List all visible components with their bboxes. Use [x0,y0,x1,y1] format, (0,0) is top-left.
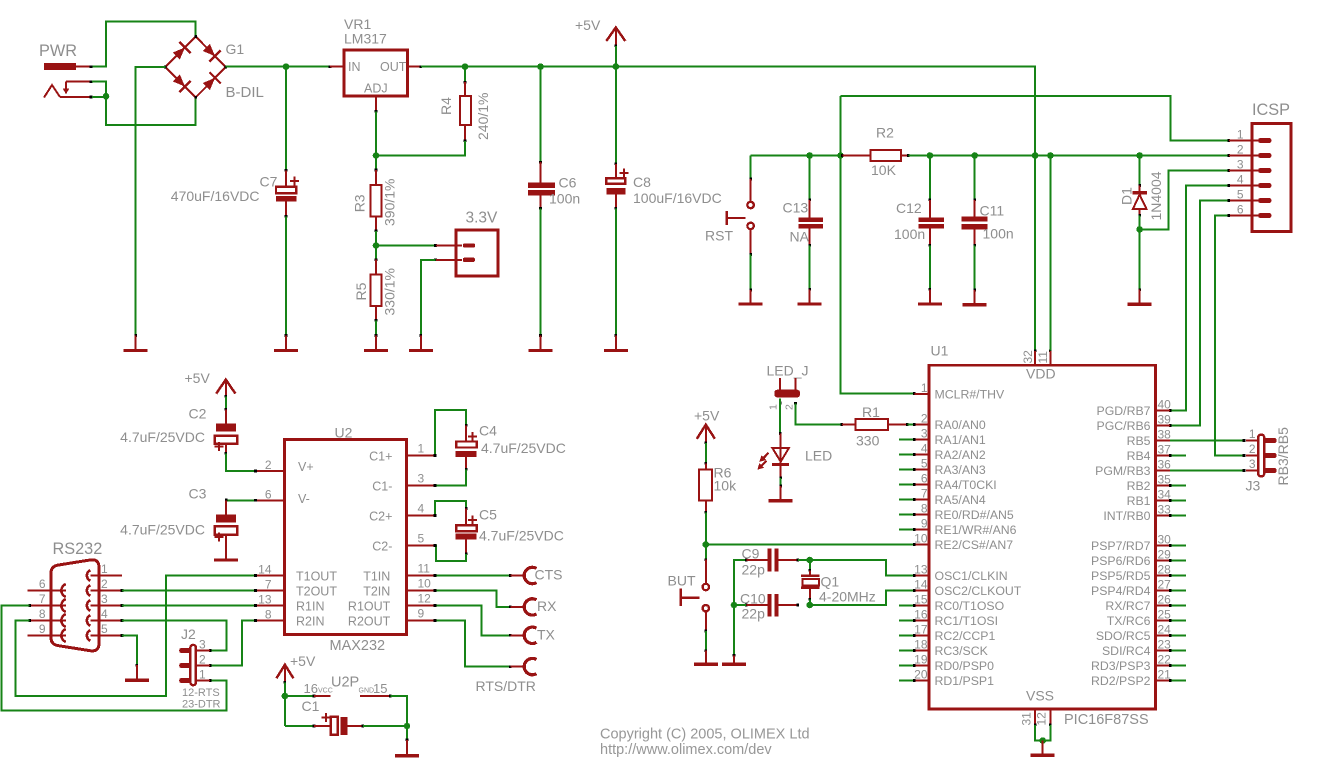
svg-text:R2OUT: R2OUT [348,615,391,629]
wire Q1 bottom to OSC2 node [809,599,811,605]
ground for LED [769,485,793,501]
supply symbol +5V top [575,17,625,47]
svg-text:TX: TX [537,627,556,643]
svg-text:C2: C2 [189,406,207,422]
svg-text:3: 3 [1249,457,1256,471]
svg-text:V+: V+ [298,460,314,474]
wire C2 to U2 pin2 V+ [226,454,256,472]
svg-text:R2: R2 [876,125,894,141]
svg-text:39: 39 [1158,413,1172,427]
wire C11 branch [974,156,976,200]
svg-text:2: 2 [101,577,108,591]
svg-text:C5: C5 [479,507,497,523]
capacitor C2 4.7uF/25VDC [120,406,237,455]
svg-text:3: 3 [921,427,928,441]
junction VDD pin11 tap [1047,152,1054,159]
svg-text:12-RTS: 12-RTS [182,687,220,699]
wire stub pins right side unconnected stubs [1170,455,1186,457]
resistor R4 240/1% [438,81,491,142]
svg-text:2: 2 [921,412,928,426]
svg-text:GND: GND [359,688,375,695]
svg-text:MCLR#/THV: MCLR#/THV [935,388,1005,402]
svg-text:R5: R5 [353,282,369,300]
svg-text:T2IN: T2IN [363,585,390,599]
svg-text:1: 1 [1237,128,1244,142]
svg-text:C3: C3 [189,486,207,502]
svg-text:12: 12 [418,592,432,606]
wire U2 pin4 C2+ to C5 [435,501,466,516]
svg-text:PGM/RB3: PGM/RB3 [1095,464,1151,478]
signal arc CTS [511,567,563,584]
svg-text:4: 4 [418,502,425,516]
wire C5 to U2 pin5 C2- [435,546,466,561]
signal arc TX [511,627,556,644]
svg-text:RB1: RB1 [1127,494,1151,508]
wire RST to ground [750,255,752,290]
ground for 3.3V pin2 [409,334,433,350]
wire C10 left to gnd rail [734,604,746,606]
svg-text:100n: 100n [894,226,925,242]
svg-text:VDD: VDD [1026,366,1056,382]
wire C12 to ground [929,245,931,289]
svg-text:1: 1 [1249,427,1256,441]
svg-text:5: 5 [418,532,425,546]
diode D1 1N4004 [1119,171,1165,220]
svg-text:2: 2 [265,458,272,472]
svg-text:3: 3 [418,472,425,486]
junction C10/Q1/OSC2 [807,602,814,609]
svg-text:C1+: C1+ [369,450,392,464]
svg-text:13: 13 [258,593,272,607]
svg-text:SDI/RC4: SDI/RC4 [1102,644,1151,658]
svg-text:8: 8 [265,608,272,622]
wire D1 anode to ICSP pin3 [1140,171,1229,230]
svg-text:U2P: U2P [331,675,359,691]
svg-text:RD0/PSP0: RD0/PSP0 [935,659,995,673]
svg-text:470uF/16VDC: 470uF/16VDC [171,188,260,204]
svg-text:10K: 10K [871,162,897,178]
svg-text:RX/RC7: RX/RC7 [1105,599,1150,613]
wire C6 to ground [540,208,542,335]
svg-text:SDO/RC5: SDO/RC5 [1096,629,1151,643]
supply symbol +5V at U2P [276,653,316,684]
wire net T2OUT (DB9 pin2 to U2 pin7) [122,590,255,592]
svg-text:14: 14 [258,563,272,577]
junction C13 tap [806,152,813,159]
connector PWR (power terminal) [39,42,92,70]
wire C8 to ground [615,208,617,335]
jack plug J1 (DC power jack) [44,80,92,98]
junction R4 tap [462,63,469,70]
svg-text:40: 40 [1158,398,1172,412]
svg-text:10: 10 [418,577,432,591]
svg-text:20: 20 [914,668,928,682]
svg-text:OSC1/CLKIN: OSC1/CLKIN [935,569,1008,583]
svg-text:4-20MHz: 4-20MHz [819,589,876,605]
wire MCLR vertical and to ICSP pin1 [841,96,1229,141]
svg-text:23-DTR: 23-DTR [182,699,221,711]
signal arc RTS/DTR [476,658,537,694]
wire C12 branch [929,156,931,200]
wire net T1OUT loop (U2 pin14 to DB9 pin8) [16,576,256,696]
svg-text:7: 7 [39,592,46,606]
svg-text:PIC16F87SS: PIC16F87SS [1064,712,1149,728]
ground for U2P [395,739,419,756]
svg-text:RB2: RB2 [1127,479,1151,493]
wire net C9/C10 ground rail [734,560,746,655]
svg-text:RC0/T1OSO: RC0/T1OSO [935,599,1005,613]
wire +5V to R6 [705,443,707,463]
svg-text:+5V: +5V [185,370,211,386]
wire R1 to RA0 [908,424,915,426]
svg-text:RE0/RD#/AN5: RE0/RD#/AN5 [935,508,1014,522]
wire LED_J pin2 to R1 [796,404,842,425]
svg-text:Q1: Q1 [821,574,840,590]
connector 3.3V output [434,210,498,277]
svg-text:R3: R3 [352,194,368,212]
resistor R3 390/1% [352,169,398,232]
svg-text:LED_J: LED_J [767,363,809,379]
wire ground stem U2P [406,726,408,740]
svg-text:C13: C13 [783,200,809,216]
svg-text:C8: C8 [633,174,651,190]
svg-text:Copyright (C) 2005, OLIMEX Ltd: Copyright (C) 2005, OLIMEX Ltd [600,727,810,743]
ground for C6 [529,334,553,350]
svg-text:1N4004: 1N4004 [1148,171,1164,220]
wire U2 pin1 C1+ to C4 [435,410,466,455]
svg-text:9: 9 [418,607,425,621]
wire C7 to ground [285,216,287,335]
svg-text:5: 5 [921,457,928,471]
svg-text:16: 16 [304,681,318,696]
svg-text:17: 17 [914,623,928,637]
svg-text:CTS: CTS [535,567,563,583]
svg-text:RD1/PSP1: RD1/PSP1 [935,674,995,688]
resistor R6 10k [699,462,737,514]
svg-text:32: 32 [1021,350,1035,364]
svg-text:240/1%: 240/1% [475,93,491,140]
svg-text:PGC/RB6: PGC/RB6 [1097,419,1151,433]
connector RS232 DB9 [28,540,124,651]
svg-text:15: 15 [914,593,928,607]
svg-text:PSP4/RD4: PSP4/RD4 [1091,584,1151,598]
wire stub pins RA1-RE1 (left unconnected stubs) [899,439,914,441]
svg-text:RA4/T0CKI: RA4/T0CKI [935,478,997,492]
svg-text:MAX232: MAX232 [330,638,386,654]
svg-text:100uF/16VDC: 100uF/16VDC [633,190,722,206]
svg-text:RC3/SCK: RC3/SCK [935,644,989,658]
wire U2 pin11 to CTS [435,575,510,577]
ground for C9/C10 [722,654,746,664]
wire net MCLR (RST row left of R2) [751,155,843,157]
svg-text:RTS/DTR: RTS/DTR [476,678,536,694]
svg-text:6: 6 [1237,203,1244,217]
junction U2P VCC / C1 [282,693,289,700]
svg-text:IN: IN [348,60,361,74]
svg-text:7: 7 [265,578,272,592]
svg-text:31: 31 [1019,712,1033,726]
svg-text:1: 1 [921,381,928,395]
svg-text:OSC2/CLKOUT: OSC2/CLKOUT [935,584,1022,598]
svg-text:R1: R1 [862,404,880,420]
capacitor C1 (U2P bypass) [285,698,364,735]
svg-text:22p: 22p [742,606,766,622]
junction VSS [1039,737,1046,744]
svg-text:1: 1 [418,442,425,456]
wire 3.3V pin1 wire [376,245,435,247]
svg-text:7: 7 [921,487,928,501]
copyright text [600,727,810,759]
svg-text:RE2/CS#/AN7: RE2/CS#/AN7 [935,538,1014,552]
capacitor C13 NA [783,199,824,247]
ground for C13 [798,288,822,304]
svg-text:6: 6 [39,577,46,591]
svg-text:D1: D1 [1119,187,1135,205]
svg-text:C9: C9 [742,546,760,562]
supply symbol +5V at R6 [694,408,720,445]
svg-text:R4: R4 [438,97,454,115]
svg-text:RA3/AN3: RA3/AN3 [935,463,986,477]
svg-text:RE1/WR#/AN6: RE1/WR#/AN6 [935,523,1017,537]
wire 3.3V pin2 to ground [421,260,436,336]
junction MCLR vertical tap [837,152,844,159]
svg-text:LM317: LM317 [344,31,387,47]
svg-text:+5V: +5V [575,17,601,33]
wire VSS pins to ground [1035,725,1050,741]
wire net RTS loop (DB9 pin7 to J2 pin1) [1,606,226,711]
jumper J2 [179,626,220,711]
svg-text:8: 8 [921,502,928,516]
wire net DC- (bridge minus to ground) [136,67,166,336]
wire LED_J pin1 to LED [779,399,781,434]
resistor R1 330 [841,404,909,449]
wire D1 anode node [1139,215,1141,289]
jumper J3 RB3/RB5 [1246,427,1292,494]
svg-text:RB5: RB5 [1127,434,1151,448]
wire C6 branch [540,67,542,163]
wire net DTR (DB9 pin4 to J2 pin3) [122,621,226,651]
svg-text:J3: J3 [1246,478,1261,494]
svg-text:R2IN: R2IN [296,615,324,629]
wire R3 bottom node [375,231,377,260]
wire +5V symbol stem [615,46,617,67]
wire C9 to OSC1 node [798,559,810,561]
ground for D1 [1128,288,1152,304]
svg-text:4.7uF/25VDC: 4.7uF/25VDC [479,528,564,544]
ground for C12 [918,288,942,304]
pushbutton BUT [668,545,710,633]
wire BUT node to RE2 pin10 [706,544,915,546]
svg-text:4: 4 [921,442,928,456]
svg-text:RB4: RB4 [1127,449,1151,463]
pushbutton RST [705,156,754,256]
crystal Q1 4-20MHz [801,560,876,605]
svg-text:T1IN: T1IN [363,570,390,584]
svg-text:6: 6 [921,472,928,486]
junction C9/Q1/OSC1 [807,557,814,564]
wire C4 to U2 pin3 C1- [435,470,466,486]
svg-text:3: 3 [101,592,108,606]
svg-text:RA1/AN1: RA1/AN1 [935,433,986,447]
svg-text:T1OUT: T1OUT [296,570,337,584]
wire C13 to ground [809,245,811,289]
svg-text:T2OUT: T2OUT [296,585,337,599]
svg-text:PSP7/RD7: PSP7/RD7 [1091,539,1151,553]
capacitor C6 100n [528,161,580,210]
wire net DCIN- (jack to bridge AC2) [92,82,196,125]
ground for VSS [1031,741,1055,756]
svg-text:1: 1 [101,562,108,576]
svg-text:PSP6/RD6: PSP6/RD6 [1091,554,1151,568]
svg-text:1: 1 [199,668,206,682]
ground for RST [739,289,763,304]
svg-text:TX/RC6: TX/RC6 [1107,614,1151,628]
signal arc RX [511,598,558,615]
svg-text:9: 9 [921,517,928,531]
svg-text:C1-: C1- [372,480,392,494]
LED diode [757,432,832,479]
junction C8 / +5V symbol tap [613,63,620,70]
wire C7 branch [285,67,287,171]
svg-text:100n: 100n [549,191,580,207]
svg-text:6: 6 [265,487,272,501]
svg-text:RST: RST [705,228,733,244]
wire net VIN (bridge plus to VR1 IN, C7 tap) [226,66,330,68]
svg-text:R1IN: R1IN [296,600,324,614]
svg-text:RA0/AN0: RA0/AN0 [935,418,986,432]
capacitor C4 4.7uF/25VDC [455,423,566,471]
ic U2 MAX232 [256,425,435,655]
capacitor C7 470uF/16VDC [171,169,299,218]
wire D1 cathode branch [1139,156,1141,186]
wire LED cathode to ground [780,478,782,486]
svg-text:4.7uF/25VDC: 4.7uF/25VDC [120,429,205,445]
svg-text:4: 4 [101,607,108,621]
svg-text:8: 8 [39,607,46,621]
svg-text:G1: G1 [226,41,245,57]
wire net +5V right (R2 to ICSP pin2) [909,155,1229,157]
wire C8 branch [615,67,617,164]
wire net R2IN (U2 pin8 to J2 pin2) [210,621,255,666]
capacitor C8 100uF/16VDC [606,163,721,210]
wire OSC1 to PIC pin13 [810,560,915,576]
svg-text:38: 38 [1158,428,1172,442]
junction C11 tap [971,152,978,159]
svg-text:INT/RB0: INT/RB0 [1103,509,1150,523]
svg-text:+5V: +5V [694,408,720,424]
svg-text:C4: C4 [479,423,497,439]
svg-text:PSP5/RD5: PSP5/RD5 [1091,569,1151,583]
capacitor C11 100n [962,199,1014,247]
svg-text:LED: LED [805,448,832,464]
svg-text:U1: U1 [931,343,949,359]
jumper LED_J [767,363,809,411]
junction VDD pin32 tap [1032,152,1039,159]
svg-text:36: 36 [1158,458,1172,472]
junction C12 tap [927,152,934,159]
svg-text:2: 2 [1249,442,1256,456]
svg-text:RX: RX [537,598,557,614]
junction C7 tap [283,63,290,70]
wire BUT to ground [705,631,707,651]
wire +5V to C2 [225,397,227,410]
junction C10 gnd tap [731,602,738,609]
junction R3/R5/3.3V [373,242,380,249]
svg-text:19: 19 [914,653,928,667]
junction R6/BUT/RE2 [703,541,710,548]
svg-text:C11: C11 [980,203,1005,219]
svg-text:4.7uF/25VDC: 4.7uF/25VDC [481,440,566,456]
junction C1/GND15/ground [404,723,411,730]
svg-text:1: 1 [768,404,780,410]
svg-text:390/1%: 390/1% [382,179,398,226]
ground for BUT [694,649,718,664]
wire PGM/RB3 to J3 pin3 [1170,470,1244,472]
wire R5 to ground [375,321,377,336]
svg-text:15: 15 [373,681,387,696]
wire U2 pin10 to RX [435,591,510,607]
svg-text:+5V: +5V [290,653,316,669]
svg-text:22p: 22p [742,562,766,578]
svg-text:RD3/PSP3: RD3/PSP3 [1091,659,1151,673]
svg-text:330: 330 [856,433,880,449]
svg-text:R1OUT: R1OUT [348,600,391,614]
wire net DCIN+ (PWR to bridge AC1) [92,22,196,67]
svg-text:9: 9 [39,622,46,636]
wire R6 bottom to BUT node [705,513,707,545]
junction jack node [103,93,110,100]
wire GND15 to ground node [391,696,408,726]
wire net R1IN (DB9 pin3 to U2 pin13) [122,605,255,607]
wire U2 pin9 to RTS/DTR [435,621,510,667]
resistor R5 330/1% [353,258,398,321]
power pins U2P (MAX232 supply) [285,675,392,698]
wire U2 pin12 to TX [435,606,510,636]
wire VR1 ADJ down [375,112,377,171]
wire U2 pin6 V- to C3 [226,500,256,501]
svg-text:16: 16 [914,608,928,622]
svg-text:V-: V- [298,492,310,506]
svg-text:RC1/T1OSI: RC1/T1OSI [935,614,999,628]
ground for C7 [274,334,298,350]
svg-text:RC2/CCP1: RC2/CCP1 [935,629,996,643]
junction D1 tap [1136,152,1143,159]
svg-text:2: 2 [1237,143,1244,157]
wire C1 right to ground node [363,725,407,727]
svg-text:11: 11 [1036,351,1050,364]
svg-text:U2: U2 [335,425,353,441]
capacitor C3 4.7uF/25VDC [120,486,238,561]
svg-text:13: 13 [914,563,928,577]
svg-text:C2-: C2- [372,540,392,554]
svg-text:BUT: BUT [668,573,696,589]
voltage regulator VR1 LM317 [329,16,422,113]
wire C13 branch [809,156,811,200]
junction D1 anode / ICSP3 [1136,226,1143,233]
svg-text:C1: C1 [302,698,320,714]
svg-text:J2: J2 [181,626,196,642]
svg-text:PWR: PWR [39,42,77,60]
capacitor C10 22p [740,591,799,622]
svg-text:C7: C7 [260,174,278,190]
ground for R5 [364,334,388,350]
svg-text:PGD/RB7: PGD/RB7 [1097,404,1151,418]
wire net +5V rail (VR1 OUT across top) [421,67,1035,351]
svg-text:11: 11 [418,562,431,576]
svg-text:RD2/PSP2: RD2/PSP2 [1091,674,1151,688]
capacitor C5 4.7uF/25VDC [455,507,564,556]
svg-text:2: 2 [199,653,206,667]
